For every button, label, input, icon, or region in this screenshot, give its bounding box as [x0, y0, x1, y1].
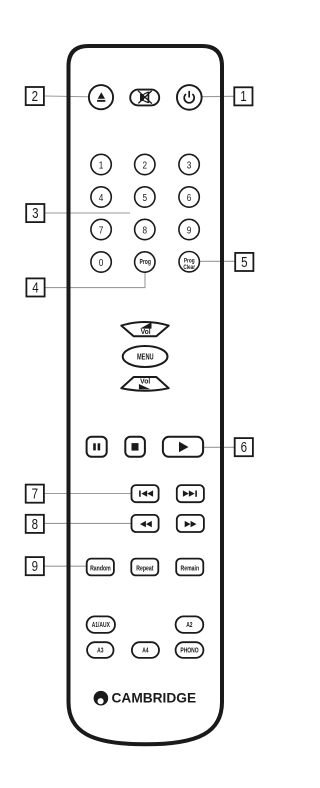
power icon — [184, 91, 194, 103]
volume up button — [121, 322, 168, 336]
stop icon — [132, 443, 139, 451]
skip fwd button — [177, 485, 204, 502]
svg-text:2: 2 — [32, 88, 38, 105]
digit 5 — [135, 187, 155, 207]
callout line 6 to play — [184, 446, 234, 448]
power button — [177, 85, 202, 110]
MENU button — [123, 346, 168, 367]
vol down wedge — [139, 384, 151, 389]
callout box 8 — [26, 515, 44, 533]
skip back button — [132, 485, 159, 502]
callout line 2 to eject — [45, 96, 101, 97]
svg-text:3: 3 — [187, 160, 192, 171]
svg-text:Repeat: Repeat — [136, 565, 154, 573]
svg-text:7: 7 — [32, 485, 38, 502]
svg-text:8: 8 — [143, 225, 148, 236]
svg-text:0: 0 — [99, 257, 104, 268]
remote body fill — [69, 46, 223, 744]
ffwd icon — [185, 521, 197, 527]
skip back icon — [139, 490, 153, 496]
callout line 9 to Random — [44, 565, 100, 567]
stop button — [125, 437, 145, 457]
svg-text:A3: A3 — [97, 647, 104, 655]
rewind icon — [140, 521, 152, 527]
svg-text:3: 3 — [32, 205, 38, 222]
svg-text:4: 4 — [32, 279, 39, 296]
callout box 4 — [26, 278, 44, 296]
callout line 5 to Prog/Clear — [189, 260, 235, 262]
Repeat button — [131, 559, 158, 576]
play icon — [179, 442, 189, 453]
Prog button — [135, 252, 155, 272]
svg-text:4: 4 — [99, 192, 104, 203]
svg-text:6: 6 — [187, 192, 192, 203]
svg-text:MENU: MENU — [137, 351, 154, 362]
mute button — [130, 90, 159, 106]
svg-text:Vol: Vol — [141, 329, 151, 336]
callout box 3 — [26, 204, 44, 222]
svg-text:Prog: Prog — [139, 258, 151, 266]
callout line 3 — [45, 212, 130, 214]
vol up wedge — [140, 322, 152, 328]
eject icon — [98, 92, 105, 99]
callout box 5 — [235, 253, 253, 271]
svg-text:8: 8 — [32, 515, 38, 532]
callout box 6 — [235, 438, 253, 456]
svg-text:Random: Random — [90, 565, 111, 573]
ffwd button — [177, 515, 204, 532]
play button — [163, 437, 203, 457]
svg-text:5: 5 — [241, 253, 247, 270]
svg-text:7: 7 — [99, 225, 104, 236]
svg-text:1: 1 — [240, 88, 246, 105]
Remain button — [176, 559, 203, 576]
svg-text:A1/AUX: A1/AUX — [92, 621, 111, 629]
digit 0 — [91, 252, 111, 272]
svg-text:Vol: Vol — [140, 379, 150, 386]
rewind button — [132, 515, 159, 532]
remote body outline — [69, 46, 223, 744]
digit 1 — [91, 154, 111, 174]
callout line 4 elbow — [45, 262, 145, 288]
skip fwd icon — [183, 490, 197, 496]
svg-text:Clear: Clear — [183, 264, 195, 271]
callout box 1 — [234, 87, 252, 105]
A4 button — [132, 642, 159, 658]
svg-text:6: 6 — [241, 439, 247, 456]
pause button — [87, 437, 107, 457]
svg-text:CAMBRIDGE: CAMBRIDGE — [112, 689, 197, 705]
digit 6 — [179, 187, 199, 207]
svg-text:PHONO: PHONO — [180, 647, 198, 655]
callout box 7 — [26, 485, 44, 503]
A3 button — [87, 642, 113, 658]
svg-text:5: 5 — [143, 192, 148, 203]
svg-text:2: 2 — [143, 160, 148, 171]
svg-text:9: 9 — [187, 225, 192, 236]
mute icon — [138, 91, 152, 104]
callout line 7 to skip-back — [45, 493, 144, 495]
svg-text:9: 9 — [32, 558, 38, 575]
callout line 1 to power — [189, 95, 234, 98]
svg-text:1: 1 — [99, 160, 104, 171]
digit 7 — [91, 219, 111, 239]
digit 3 — [179, 154, 199, 174]
digit 9 — [179, 219, 199, 239]
Cambridge logo text — [112, 689, 197, 705]
PHONO button — [176, 642, 204, 658]
pause icon — [93, 443, 96, 450]
volume down button — [121, 377, 168, 391]
callout box 2 — [26, 87, 44, 105]
eject button — [89, 85, 113, 109]
digit 8 — [135, 219, 155, 239]
A1/AUX button — [87, 616, 115, 633]
svg-text:A2: A2 — [186, 621, 193, 629]
callout box 9 — [26, 557, 44, 575]
svg-text:A4: A4 — [142, 647, 149, 655]
Cambridge logo mark — [94, 691, 109, 706]
digit 2 — [135, 154, 155, 174]
Prog/Clear button — [179, 252, 199, 272]
Random button — [87, 559, 114, 576]
callout line 8 to rewind — [45, 522, 144, 524]
digit 4 — [91, 187, 111, 207]
A2 button — [176, 616, 204, 633]
svg-text:Remain: Remain — [180, 565, 199, 573]
